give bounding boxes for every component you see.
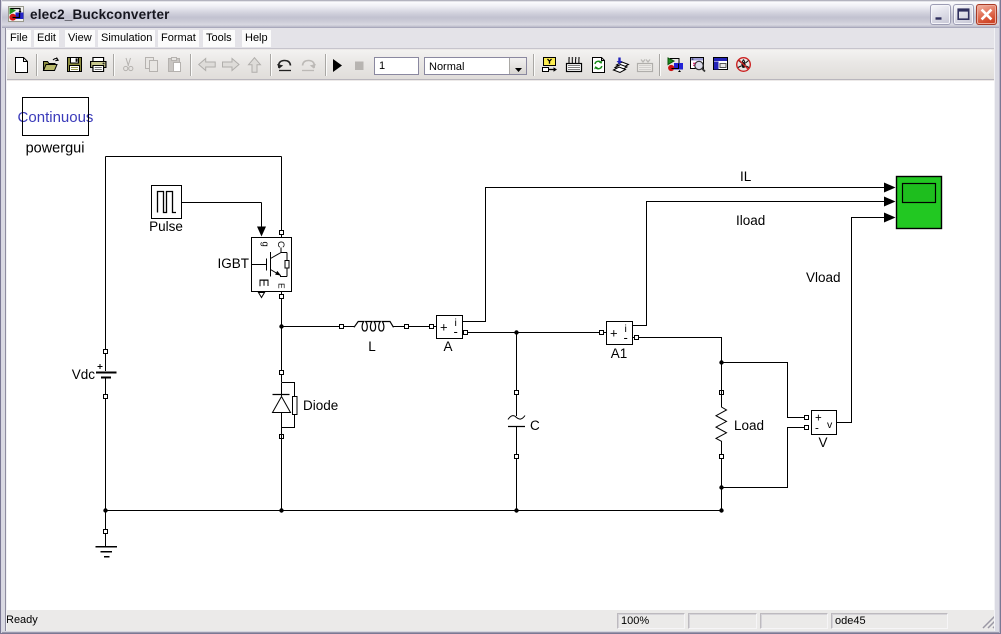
port load top xyxy=(720,391,724,395)
port ammeter A1 plus xyxy=(600,331,604,335)
scope block xyxy=(897,177,942,229)
svg-text:-: - xyxy=(454,324,458,339)
save icon xyxy=(68,58,82,72)
wire Diode top stub xyxy=(281,375,283,383)
junction ground rail diode xyxy=(279,508,283,512)
wire top horizontal Vdc+ to IGBT C xyxy=(106,156,282,158)
IGBT measurement output port triangle xyxy=(259,293,265,298)
wire ammeter A1 current output Iload xyxy=(633,202,884,326)
junction ground rail left xyxy=(103,508,107,512)
copy icon disabled xyxy=(146,58,158,72)
wire node2 down to capacitor C xyxy=(516,333,518,391)
port Vdc minus xyxy=(104,395,108,399)
toggle browser icon xyxy=(714,58,728,70)
wire Vdc+ up left vertical xyxy=(105,157,107,351)
DC voltage source Vdc xyxy=(72,364,117,382)
svg-text:A1: A1 xyxy=(611,346,628,361)
svg-text:E: E xyxy=(277,283,287,289)
port capacitor bottom xyxy=(515,455,519,459)
port ammeter A plus xyxy=(430,325,434,329)
undo icon xyxy=(277,60,291,70)
back arrow disabled xyxy=(199,59,216,71)
wire IGBT E down to node1 xyxy=(281,292,283,327)
disabled grid icon xyxy=(638,60,653,72)
wire ammeter A minus to ammeter A1 plus xyxy=(463,332,608,334)
wire Pulse to IGBT gate vertical xyxy=(261,203,263,229)
wire vertical into IGBT C port xyxy=(281,157,283,238)
svg-text:C: C xyxy=(530,418,540,433)
wire Vdc internal bottom stub xyxy=(105,378,107,394)
svg-text:Vdc: Vdc xyxy=(72,367,96,382)
wire load node to V plus branch xyxy=(722,363,805,418)
find window icon xyxy=(691,58,706,72)
wire capacitor C to ground rail xyxy=(516,459,518,511)
port voltmeter minus xyxy=(805,426,809,430)
new file icon xyxy=(16,58,28,73)
junction ground rail load corner xyxy=(719,508,723,512)
port diode anode xyxy=(280,371,284,375)
junction node1 IGBT-L-Diode xyxy=(279,324,283,328)
svg-text:+: + xyxy=(610,326,618,341)
port ammeter A1 minus xyxy=(635,336,639,340)
capacitor C xyxy=(508,416,540,434)
IGBT block xyxy=(217,238,291,298)
wire voltmeter V output Vload xyxy=(837,218,884,423)
svg-text:+: + xyxy=(440,320,448,335)
wire ground rail bottom xyxy=(106,510,722,512)
svg-text:powergui: powergui xyxy=(26,141,85,157)
svg-text:V: V xyxy=(818,435,827,450)
svg-text:IL: IL xyxy=(740,169,752,184)
svg-text:Vload: Vload xyxy=(806,270,841,285)
cut icon disabled xyxy=(124,58,133,71)
junction load bottom node3 xyxy=(719,485,723,489)
port capacitor top xyxy=(515,391,519,395)
wire load node down to Load resistor xyxy=(721,363,723,391)
svg-text:Load: Load xyxy=(734,418,764,433)
current measurement block A xyxy=(437,316,463,355)
library blocks icon xyxy=(668,58,683,72)
wire Pulse output horizontal xyxy=(182,202,262,204)
svg-text:Continuous: Continuous xyxy=(18,109,94,126)
port voltmeter plus xyxy=(805,416,809,420)
port IGBT E bottom xyxy=(280,295,284,299)
arrowhead Iload into scope xyxy=(884,197,896,207)
svg-text:g: g xyxy=(260,242,271,247)
port ammeter A minus xyxy=(464,331,468,335)
port IGBT C top xyxy=(280,231,284,235)
wire node3 down to ground rail xyxy=(721,488,723,511)
update diagram icon xyxy=(593,58,605,73)
junction node2 A-A1-C xyxy=(514,330,518,334)
debug fly icon xyxy=(737,58,751,72)
ground symbol xyxy=(96,547,118,557)
port inductor right xyxy=(405,325,409,329)
port ground xyxy=(104,530,108,534)
wire inductor L to ammeter A xyxy=(394,326,438,328)
svg-text:Iload: Iload xyxy=(736,213,765,228)
port inductor left xyxy=(340,325,344,329)
arrowhead Vload into scope xyxy=(884,213,896,223)
up arrow disabled xyxy=(249,58,261,72)
wire ammeter A1 minus to load node xyxy=(633,338,722,363)
wire node1 down to Diode anode xyxy=(281,327,283,371)
wire ground lead xyxy=(105,534,107,547)
wire V minus branch to node3 xyxy=(722,428,805,488)
junction load top node xyxy=(719,360,723,364)
port diode cathode xyxy=(280,435,284,439)
svg-text:IGBT: IGBT xyxy=(217,256,249,271)
voltage measurement block V xyxy=(812,411,837,451)
current measurement block A1 xyxy=(607,322,633,362)
redo icon disabled xyxy=(302,60,316,70)
build icon xyxy=(614,58,629,73)
inductor L xyxy=(354,322,394,355)
powergui block xyxy=(18,98,94,157)
junction ground rail capacitor xyxy=(514,508,518,512)
wire Vdc internal top stub xyxy=(105,354,107,371)
wire Vdc- down to ground rail xyxy=(105,399,107,511)
wire capacitor C bottom stub xyxy=(516,427,518,454)
arrowhead IL into scope xyxy=(884,183,896,193)
svg-text:Diode: Diode xyxy=(303,398,338,413)
play button xyxy=(333,59,342,72)
wire node1 to inductor L xyxy=(282,326,355,328)
svg-text:v: v xyxy=(827,419,833,431)
print icon xyxy=(91,58,106,72)
svg-text:C: C xyxy=(275,241,286,248)
wire capacitor C top stub xyxy=(516,395,518,417)
pulse generator block Pulse xyxy=(149,186,183,235)
port Vdc plus xyxy=(104,350,108,354)
diode Diode xyxy=(273,383,339,439)
library browser icon xyxy=(543,58,558,72)
svg-text:-: - xyxy=(815,423,819,435)
port load bottom xyxy=(720,455,724,459)
resistor Load xyxy=(716,390,764,455)
paste icon disabled xyxy=(169,58,181,72)
svg-text:Pulse: Pulse xyxy=(149,219,183,234)
open folder icon xyxy=(44,58,59,71)
svg-text:L: L xyxy=(368,339,376,354)
wire Diode bottom stub to rail xyxy=(281,439,283,511)
wire Load resistor bottom to node3 xyxy=(721,459,723,488)
svg-text:-: - xyxy=(624,330,628,345)
svg-text:E: E xyxy=(257,279,271,287)
model browser icon xyxy=(567,58,582,72)
wire ammeter A current output IL xyxy=(463,188,885,322)
arrowhead pulse into IGBT gate xyxy=(257,227,266,237)
svg-text:A: A xyxy=(443,339,452,354)
forward arrow disabled xyxy=(223,59,240,71)
stop button disabled xyxy=(355,62,364,71)
wire ground stub xyxy=(105,511,107,530)
